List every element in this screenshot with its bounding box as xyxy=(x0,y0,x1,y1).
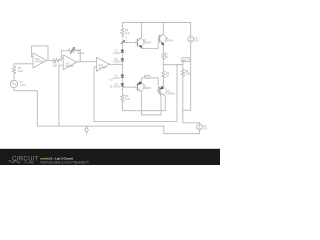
wire op-amp1 feedback loop xyxy=(32,46,49,61)
wire V1 bottom to ground rail xyxy=(14,88,37,127)
wire V3 bottom to ground xyxy=(164,126,200,134)
resistor R5 xyxy=(121,27,125,36)
transistor Q4 xyxy=(158,86,167,95)
svg-text:1N914: 1N914 xyxy=(113,86,121,89)
svg-text:1kΩ: 1kΩ xyxy=(125,97,130,101)
top rail +15V xyxy=(122,21,190,23)
wire column to R6 xyxy=(121,86,123,94)
footer bar xyxy=(0,149,220,165)
svg-text:OPAMP: OPAMP xyxy=(35,61,44,64)
wire R3 to op-amp2 output xyxy=(77,51,81,62)
svg-text:1N914: 1N914 xyxy=(113,77,121,80)
svg-text:1Ω: 1Ω xyxy=(165,56,168,59)
voltage source V3 xyxy=(197,124,203,130)
svg-text:2N3904: 2N3904 xyxy=(143,42,152,45)
svg-text:OPAMP: OPAMP xyxy=(65,65,74,68)
transistor Q3 xyxy=(158,34,167,43)
ground rail xyxy=(37,125,164,127)
op-amp U2 xyxy=(63,55,76,70)
wire D3 to D4 xyxy=(121,78,123,84)
footer text xyxy=(40,157,89,165)
transistor Q1 xyxy=(136,38,145,47)
wire op-amp1 minus input xyxy=(32,56,34,58)
svg-text:2N3906: 2N3906 xyxy=(167,92,176,95)
svg-text:15V: 15V xyxy=(194,40,199,43)
wire output node down xyxy=(176,65,178,122)
wire D1 to D2 xyxy=(121,53,123,59)
wire V2 top xyxy=(190,22,192,36)
wire Q1 emitter to Q3 base xyxy=(142,39,160,49)
diode D2 xyxy=(121,59,124,62)
wire Q4 base xyxy=(142,78,160,92)
wire R1 top to op-amp1 plus input xyxy=(14,64,33,66)
resistor R2 xyxy=(52,59,60,63)
wire base tap Q2 xyxy=(122,86,137,88)
svg-text:1kΩ: 1kΩ xyxy=(125,31,130,35)
svg-text:2N3904: 2N3904 xyxy=(165,40,174,43)
wire R2 to op-amp2 xyxy=(61,58,64,60)
wire op-amp2 output to op-amp3 xyxy=(77,61,97,63)
svg-text:1N914: 1N914 xyxy=(113,61,121,64)
ground node diamond xyxy=(86,126,88,127)
resistor R8 xyxy=(181,65,185,123)
voltage source V1 xyxy=(10,80,17,87)
CircuitLab logo xyxy=(8,156,38,164)
resistor R7 xyxy=(162,47,166,64)
svg-text:100Ω: 100Ω xyxy=(185,73,191,76)
wire h2 negative link xyxy=(142,92,161,115)
svg-text:-2/2V: -2/2V xyxy=(19,83,26,87)
voltage source V2 xyxy=(188,36,194,42)
diode D3 xyxy=(121,75,124,78)
svg-text:1kΩ: 1kΩ xyxy=(52,64,57,68)
wire op-amp3 feedback bottom xyxy=(94,121,177,123)
net flag tag xyxy=(144,75,150,78)
resistor R1 xyxy=(12,66,16,74)
svg-text:1kΩ: 1kΩ xyxy=(18,69,23,73)
resistor R9 xyxy=(162,65,166,83)
op-amp U3 xyxy=(96,57,109,71)
wire rail to R5 xyxy=(121,22,123,27)
transistor Q2 xyxy=(136,83,145,92)
wire output node xyxy=(163,64,183,66)
current source Q5 loop xyxy=(123,37,127,41)
wire D2 to junction xyxy=(121,61,123,74)
wire base tap Q1 xyxy=(122,41,137,43)
wire op-amp2 feedback xyxy=(61,51,68,59)
op-amp U1 xyxy=(33,53,47,68)
svg-text:out: out xyxy=(182,59,186,62)
diode D4 xyxy=(121,84,124,87)
wire op-amp3 output xyxy=(109,63,122,65)
svg-text:http://circuitlab.com/c/7rttyu: http://circuitlab.com/c/7rttyuk9ipc7/ xyxy=(40,160,89,164)
svg-text:∿LAB: ∿LAB xyxy=(24,161,35,165)
wire V2 bottom xyxy=(183,42,191,110)
svg-text:2N3906: 2N3906 xyxy=(143,87,152,90)
potentiometer R3 xyxy=(69,49,77,53)
potentiometer R3 arrow xyxy=(70,48,74,54)
wire R8 bottom to V3 xyxy=(183,123,200,124)
svg-text:1Ω: 1Ω xyxy=(166,74,169,77)
resistor R6 xyxy=(121,94,125,102)
wire column to D1 xyxy=(121,41,123,50)
svg-text:OPAMP: OPAMP xyxy=(98,67,107,70)
diode D1 xyxy=(121,50,124,53)
wire op-amp2 plus to ground rail xyxy=(59,65,63,126)
svg-text:15V: 15V xyxy=(203,128,208,131)
wire op-amp3 lower input to feedback xyxy=(94,67,96,121)
wire op-amp1 output xyxy=(47,60,53,62)
svg-text:10kΩ: 10kΩ xyxy=(78,51,85,55)
wire R6 to negative link xyxy=(122,102,165,110)
svg-text:1N914: 1N914 xyxy=(113,52,121,55)
output tag xyxy=(182,62,184,64)
wire V1 top to R1 xyxy=(13,74,15,80)
